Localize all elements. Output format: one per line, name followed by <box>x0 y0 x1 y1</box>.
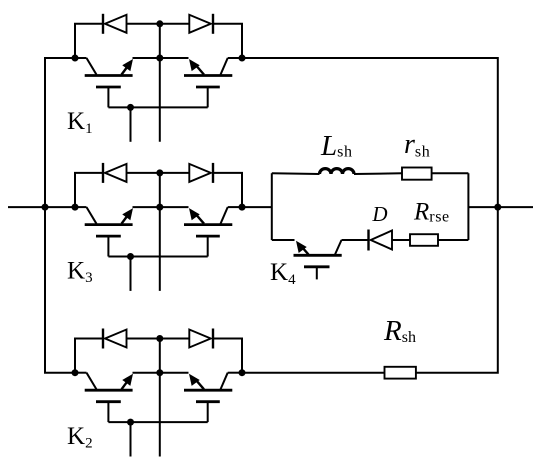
wire: diode midspan right <box>160 172 189 174</box>
wire: rsh to loop right vertical <box>432 172 469 174</box>
wire: diode midspan right <box>160 338 189 340</box>
wire: snubber loop right vertical <box>467 173 469 240</box>
node: K2 gate bus junction <box>127 419 134 426</box>
wire: K1 left node up to diode row <box>75 24 103 58</box>
wire: K1 control terminal 1 <box>130 107 132 141</box>
wire: snubber loop left vertical <box>271 173 273 240</box>
node: K3 gate bus junction <box>127 253 134 260</box>
resistor Rrse <box>410 234 438 246</box>
node: K1 diode junction <box>156 20 163 27</box>
wire: K1 gate bus <box>108 106 207 108</box>
transistor K2 left IGBT <box>75 373 160 422</box>
wire: K3 control terminal 1 <box>130 257 132 291</box>
wire: K2 control terminal 1 <box>130 422 132 456</box>
node: K1 middle node <box>156 55 163 62</box>
wire: K3 gate bus <box>108 256 207 258</box>
node: K2 right node <box>239 369 246 376</box>
diode D (pointing left) <box>369 230 393 251</box>
wire: diode row to K1 right node <box>213 24 242 58</box>
wire: loop top branch to inductor <box>272 172 320 175</box>
wire: K1 middle column / control terminal 2 <box>159 24 161 142</box>
wire: left DC rail <box>45 58 75 373</box>
wire: K3 middle column / control terminal 2 <box>159 173 161 291</box>
node: K2 middle node <box>156 369 163 376</box>
wire: Rrse to loop right vertical <box>438 239 468 241</box>
wire: loop to right rail and output terminal <box>468 206 533 208</box>
inductor Lsh <box>320 169 355 174</box>
node: right rail / output junction <box>494 204 501 211</box>
wire: diode midspan right <box>160 23 189 25</box>
node: K3 diode junction <box>156 169 163 176</box>
node: K3 left node <box>72 204 79 211</box>
wire: diode row to K3 right node <box>213 173 242 207</box>
transistor K3 right IGBT <box>160 207 242 256</box>
diode K3b (right, pointing right) <box>189 163 213 183</box>
wire: loop bottom branch from left vertical to K4 <box>272 239 295 241</box>
diode K2b (right, pointing right) <box>189 329 213 349</box>
wire: diode midspan left <box>127 338 160 340</box>
wire: K2 right node to resistor Rsh <box>242 372 385 374</box>
node: K3 middle node <box>156 204 163 211</box>
node: K2 left node <box>72 369 79 376</box>
transistor K4 <box>294 240 342 279</box>
node: K1 right node <box>239 55 246 62</box>
transistor K1 right IGBT <box>160 58 242 107</box>
wire: K3 right node to snubber loop <box>242 206 272 208</box>
wire: K3 left node up to diode row <box>75 173 103 207</box>
wire: diode midspan left <box>127 172 160 174</box>
resistor rsh <box>402 168 432 180</box>
transistor K3 left IGBT <box>75 207 160 256</box>
diode K3a (left, pointing left) <box>103 163 127 183</box>
svg-text:D: D <box>371 202 387 226</box>
wire: top rail from K1 right node to right rail <box>242 58 498 373</box>
diode K2a (left, pointing left) <box>103 329 127 349</box>
wire: left input terminal <box>8 206 75 208</box>
diode K1a (left, pointing left) <box>103 14 127 34</box>
node: K1 left node <box>72 55 79 62</box>
node: K2 diode junction <box>156 335 163 342</box>
wire: inductor to resistor rsh <box>354 172 402 175</box>
transistor K2 right IGBT <box>160 373 242 422</box>
wire: diode row to K2 right node <box>213 339 242 373</box>
node: left rail / input junction <box>42 204 49 211</box>
wire: diode D to resistor Rrse <box>392 239 410 241</box>
wire: K2 gate bus <box>108 421 207 423</box>
wire: K4 collector to diode D <box>342 239 369 241</box>
wire: K2 middle column / control terminal 2 <box>159 339 161 457</box>
node: K1 gate bus junction <box>127 104 134 111</box>
wire: diode midspan left <box>127 23 160 25</box>
wire: K2 left node up to diode row <box>75 339 103 373</box>
node: K3 right node <box>239 204 246 211</box>
diode K1b (right, pointing right) <box>189 14 213 34</box>
transistor K1 left IGBT <box>75 58 160 107</box>
resistor Rsh <box>385 367 416 379</box>
